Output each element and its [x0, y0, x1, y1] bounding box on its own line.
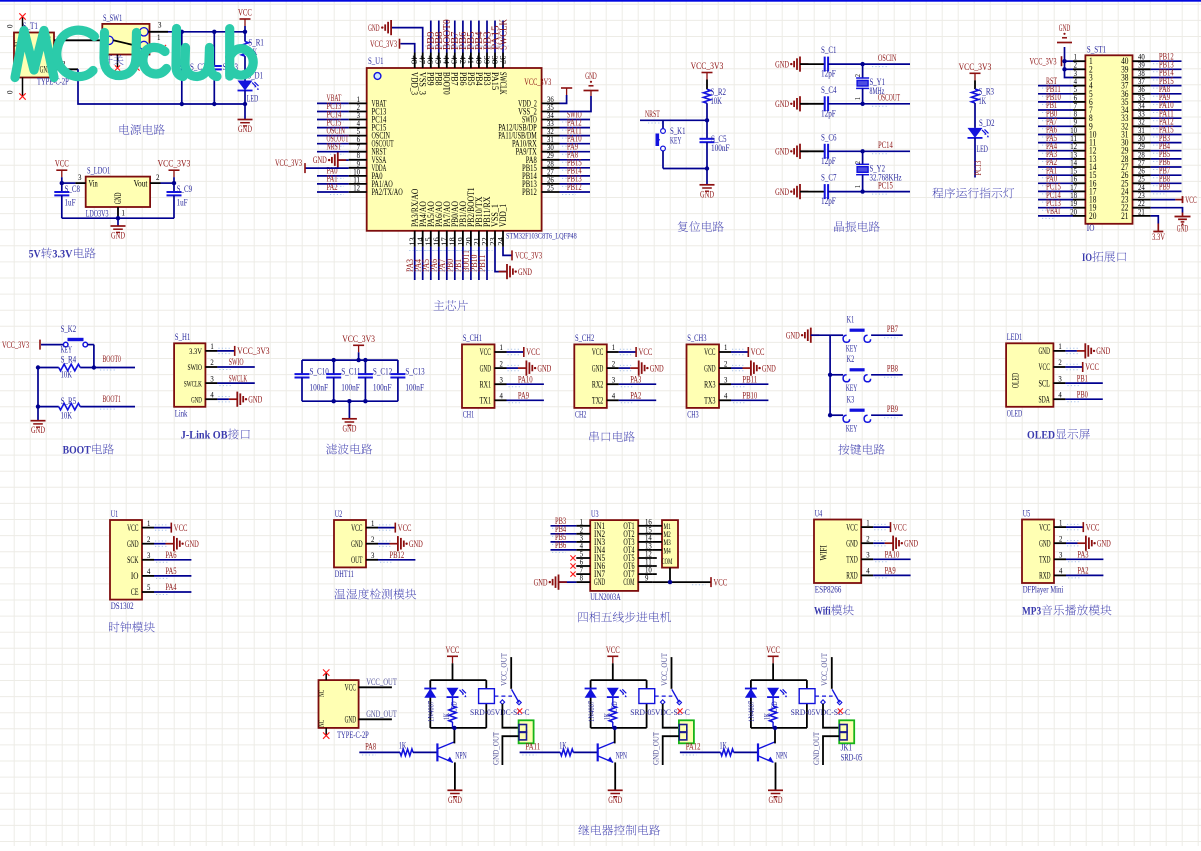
svg-text:0: 0 [5, 25, 15, 29]
pin 24 (VDD_1) [502, 231, 504, 247]
unused pins of S_SW1 [117, 55, 119, 68]
wire net SWIO [560, 119, 591, 121]
svg-text:SCL: SCL [1039, 379, 1051, 389]
svg-text:1: 1 [853, 185, 862, 188]
net PB11 (bottom stub) [486, 247, 488, 280]
wire OT6 stub [652, 565, 657, 567]
svg-text:VCC: VCC [639, 348, 653, 358]
power VCC [731, 351, 748, 353]
net PA7 (bottom stub) [446, 247, 448, 280]
svg-text:2: 2 [210, 358, 213, 367]
resistor S_R1 1K [244, 32, 246, 42]
net PA4 (bottom stub) [422, 247, 424, 280]
wire GND_OUT [823, 736, 839, 765]
svg-text:100nF: 100nF [405, 383, 424, 393]
wire net PB15 [1151, 85, 1182, 87]
wire net VBAT [1038, 215, 1073, 217]
net PB7 (top stub) [454, 21, 456, 53]
pin 27 (PB14) [542, 175, 560, 177]
pin 25 (PB12) [542, 191, 560, 193]
power port VCC [607, 655, 618, 657]
pin 3 (IN3) [576, 541, 590, 543]
capacitor S_C10 100nF [301, 360, 303, 374]
svg-text:VDD_1: VDD_1 [498, 204, 509, 227]
emitter wire to ground [454, 762, 456, 790]
svg-text:OLED: OLED [1027, 428, 1055, 442]
svg-text:CH2: CH2 [575, 410, 587, 420]
svg-text:2: 2 [1058, 358, 1061, 367]
pin 8 [1073, 117, 1085, 119]
collector wire [774, 728, 776, 744]
title 滤波电路 [326, 444, 337, 455]
capacitor S_C11 100nF [333, 360, 335, 374]
svg-text:2: 2 [724, 359, 727, 368]
pin 13 [1073, 158, 1085, 160]
svg-text:GND: GND [1096, 347, 1110, 357]
title 四相五线步进电机 [578, 612, 588, 622]
capacitor S_C13 100nF [397, 360, 399, 374]
wire net PC15 [828, 191, 910, 193]
pin 19 (PB1/AO) [462, 231, 464, 247]
svg-text:VCC: VCC [526, 348, 540, 358]
svg-text:1: 1 [157, 32, 161, 42]
svg-text:VCC_3V3: VCC_3V3 [370, 40, 397, 50]
svg-text:GND: GND [762, 364, 776, 374]
pin 1 (VCC) of S_T1 [54, 39, 102, 41]
svg-text:NC: NC [316, 720, 326, 727]
svg-text:K2: K2 [847, 355, 855, 365]
svg-text:VCC: VCC [846, 523, 857, 533]
svg-text:100nF: 100nF [711, 144, 730, 154]
wire net PC13 [317, 111, 349, 113]
svg-text:CH1: CH1 [463, 410, 475, 420]
wire net PA7 [1038, 125, 1073, 127]
svg-text:VCC_3V3: VCC_3V3 [2, 341, 29, 351]
svg-text:VCC: VCC [351, 524, 362, 534]
pin 6 (IN6) [576, 565, 590, 567]
pin 20 [1073, 215, 1085, 217]
pin 30 [1133, 142, 1151, 144]
svg-text:1K: 1K [720, 740, 728, 750]
pin 35 [1133, 101, 1151, 103]
wire net PB1 [1065, 382, 1102, 384]
svg-text:GND: GND [368, 24, 380, 34]
svg-text:J-Link OB: J-Link OB [181, 428, 228, 442]
svg-text:SWCLK: SWCLK [497, 72, 508, 95]
module U5 (DFPlayer Mini) [1022, 520, 1054, 584]
transistor NPN [597, 743, 599, 761]
svg-text:1K: 1K [399, 740, 407, 750]
net SWCLK (top stub) [502, 21, 504, 53]
svg-text:3.3V: 3.3V [52, 247, 72, 261]
svg-text:KEY: KEY [846, 345, 858, 355]
svg-text:VCC: VCC [1085, 363, 1099, 373]
connector TYPE-C-2P (power out) [319, 680, 359, 728]
wire net PA8 [1151, 93, 1182, 95]
svg-text:PA4: PA4 [165, 582, 176, 592]
svg-text:8MHz: 8MHz [870, 87, 885, 97]
wire net PB0 [1038, 117, 1073, 119]
svg-text:VCC_3V3: VCC_3V3 [275, 159, 302, 169]
pin 39 [1133, 68, 1151, 70]
svg-text:PB12: PB12 [522, 187, 537, 197]
svg-text:GND: GND [409, 540, 423, 550]
switch blade [672, 689, 680, 702]
wire OT4 to M4 [652, 549, 662, 551]
pin 39 (PB3) [486, 53, 488, 69]
pin 30 (PA9/TX) [542, 151, 560, 153]
connector (relay output) [839, 720, 854, 743]
svg-text:S_C7: S_C7 [821, 174, 837, 184]
svg-text:SWCLK: SWCLK [229, 373, 248, 383]
svg-text:VCC: VCC [1185, 196, 1196, 206]
svg-text:GND: GND [114, 192, 124, 204]
svg-text:VCC_3V3: VCC_3V3 [342, 335, 375, 345]
svg-text:M4: M4 [664, 545, 672, 555]
capacitor S_C5 100nF [706, 120, 708, 139]
pin 19 [1073, 207, 1085, 209]
net BOOT0 [80, 367, 135, 369]
svg-text:1: 1 [866, 518, 869, 527]
pin 16 (PA6/AO) [438, 231, 440, 247]
wire net PA6 [1038, 134, 1073, 136]
svg-text:0: 0 [5, 91, 15, 95]
pin 13 (PA3/RX/AO) [414, 231, 416, 247]
pin 7 (IN7) [576, 573, 590, 575]
capacitor S_C9 1uF [173, 183, 175, 192]
svg-text:GND_OUT: GND_OUT [651, 731, 661, 765]
svg-text:1N4007: 1N4007 [426, 700, 436, 722]
capacitor S_C4 12pF [800, 103, 825, 105]
svg-text:GND: GND [775, 188, 789, 198]
svg-text:S_C6: S_C6 [821, 133, 837, 143]
coil dashed link [815, 695, 833, 697]
svg-text:VCC: VCC [714, 578, 728, 588]
coil dashed link [655, 695, 673, 697]
ground [811, 334, 819, 336]
svg-text:PB1: PB1 [1077, 373, 1088, 383]
svg-text:1: 1 [371, 519, 374, 528]
wire COM to VCC [652, 581, 711, 583]
svg-text:1uF: 1uF [177, 199, 188, 209]
wire net PB11 [731, 383, 768, 385]
ground [31, 420, 46, 422]
svg-text:2: 2 [1059, 534, 1062, 543]
svg-text:12: 12 [353, 184, 360, 193]
resistor 1K (base) [721, 749, 734, 756]
svg-text:S_SW1: S_SW1 [103, 14, 123, 24]
pin 29 (PA8) [542, 159, 560, 161]
power VCC at pin23 [1151, 199, 1176, 201]
power port VCC [447, 655, 458, 657]
svg-text:21: 21 [1121, 211, 1128, 221]
power VCC_3V3 at VDD_3 pin48 [401, 44, 415, 53]
svg-text:PA2: PA2 [327, 182, 338, 192]
power VCC [873, 526, 890, 528]
contact common (VCC_OUT) [671, 657, 673, 689]
svg-text:VCC: VCC [1086, 523, 1100, 533]
svg-text:LED1: LED1 [1007, 333, 1023, 343]
ground [244, 104, 246, 120]
pin 1 of S_SW1 [148, 45, 162, 47]
pin 32 (PA11/USB/DM) [542, 135, 560, 137]
svg-text:GND: GND [904, 539, 918, 549]
svg-text:S_C13: S_C13 [405, 367, 425, 377]
pin 9 [1073, 125, 1085, 127]
svg-text:3: 3 [866, 551, 869, 560]
wire net PB15 [560, 167, 591, 169]
svg-text:SWCLK: SWCLK [184, 378, 202, 388]
svg-text:IO: IO [131, 572, 139, 582]
pin 2 [1073, 68, 1085, 70]
svg-text:2: 2 [500, 359, 503, 368]
svg-text:VCC: VCC [127, 524, 138, 534]
svg-text:SWIO: SWIO [229, 357, 244, 367]
svg-text:PA10: PA10 [518, 374, 533, 384]
connector S_T1 TYPE-C-2P [14, 33, 54, 78]
title 复位电路 [678, 221, 688, 232]
wire net PB12 [378, 559, 415, 561]
pin 25 [1133, 182, 1151, 184]
svg-text:GND: GND [238, 125, 252, 135]
wire net PB11 [1038, 93, 1073, 95]
power VCC [1066, 526, 1083, 528]
wire net PB5 [1151, 158, 1182, 160]
svg-text:KEY: KEY [846, 384, 858, 394]
no-ERC marks on S_T1 [22, 17, 24, 33]
svg-text:KEY: KEY [61, 346, 73, 356]
svg-text:3: 3 [371, 551, 374, 560]
pin 14 [1073, 166, 1085, 168]
pin 20 (PB2/BOOT1) [470, 231, 472, 247]
power VCC_3V3 [217, 350, 234, 352]
svg-text:TXD: TXD [846, 556, 858, 566]
net PA5 (bottom stub) [430, 247, 432, 280]
wire net PA9 [873, 574, 910, 576]
svg-text:K3: K3 [847, 395, 855, 405]
title 按键电路 [838, 444, 849, 455]
wire net PB12 [1151, 60, 1182, 62]
frame wires [430, 679, 486, 681]
svg-text:OLED: OLED [1012, 373, 1022, 388]
pin 6 [1073, 101, 1085, 103]
wire net PA1 [317, 183, 349, 185]
wire net OSCOUT [317, 143, 349, 145]
svg-text:S_R4: S_R4 [61, 355, 77, 365]
pin 23 (VSS_1) [494, 231, 496, 247]
wire net PB1 [1038, 109, 1073, 111]
pin 10 (OT7) [638, 573, 652, 575]
wire net PC13 [1038, 207, 1073, 209]
ground at VSS_1 pin23 [495, 247, 507, 272]
svg-text:32.768KHz: 32.768KHz [870, 174, 902, 184]
svg-text:3: 3 [210, 374, 213, 383]
pin 47 (VSS_3) [422, 53, 424, 69]
ground [1065, 350, 1077, 352]
svg-text:3: 3 [158, 20, 162, 30]
svg-text:IO: IO [1082, 250, 1092, 264]
crystal S_Y2 32.768KHz [862, 151, 864, 164]
pin 21 [1133, 215, 1151, 217]
wire net PB12 [560, 191, 591, 193]
svg-text:U3: U3 [591, 510, 599, 520]
module LED1 (OLED) [1006, 343, 1053, 407]
svg-text:1K: 1K [762, 712, 772, 720]
svg-text:1: 1 [122, 208, 126, 218]
pin 6 (OSCOUT) [349, 143, 367, 145]
svg-text:GND: GND [1177, 225, 1189, 235]
ground [117, 218, 119, 226]
svg-text:2: 2 [866, 534, 869, 543]
LED [767, 688, 779, 697]
contact common (VCC_OUT) [510, 657, 512, 689]
svg-text:VCC_OUT: VCC_OUT [819, 652, 829, 686]
svg-text:RXD: RXD [846, 572, 858, 582]
svg-text:VCC_3V3: VCC_3V3 [1030, 58, 1057, 68]
svg-text:VCC_OUT: VCC_OUT [499, 652, 509, 686]
pin 37 [1133, 85, 1151, 87]
title 主芯片 [434, 300, 445, 310]
svg-text:S_K2: S_K2 [61, 325, 77, 335]
wire net PC14 [828, 150, 910, 152]
svg-text:WIFI: WIFI [820, 545, 830, 560]
svg-text:S_ST1: S_ST1 [1087, 45, 1107, 55]
svg-text:1: 1 [612, 343, 615, 352]
svg-text:GND: GND [786, 331, 800, 341]
svg-text:GND: GND [1039, 347, 1051, 357]
svg-text:3.3V: 3.3V [189, 346, 202, 356]
svg-text:2: 2 [612, 359, 615, 368]
net PB4 (top stub) [478, 21, 480, 53]
svg-text:12pF: 12pF [821, 157, 836, 167]
svg-text:GND: GND [650, 364, 664, 374]
wire net OSCIN [828, 63, 910, 65]
title 晶振电路 [834, 221, 844, 232]
capacitor S_C1 12pF [800, 63, 825, 65]
svg-text:VCC_3V3: VCC_3V3 [515, 252, 542, 262]
title 温湿度检测模块 [334, 589, 345, 600]
wire net PB8 [871, 374, 903, 376]
ground [217, 398, 229, 400]
svg-text:DFPlayer Mini: DFPlayer Mini [1023, 586, 1064, 596]
svg-text:20: 20 [1070, 207, 1077, 216]
svg-text:3: 3 [1058, 374, 1061, 383]
svg-text:PC13: PC13 [973, 160, 983, 175]
svg-text:PA2: PA2 [1077, 566, 1088, 576]
svg-text:12pF: 12pF [821, 197, 836, 207]
svg-text:PA11: PA11 [525, 742, 540, 752]
svg-text:GND: GND [1097, 539, 1111, 549]
net PB10 (bottom stub) [478, 247, 480, 280]
ground [800, 63, 808, 65]
svg-text:S_C12: S_C12 [373, 367, 393, 377]
wire net PB10 [1038, 101, 1073, 103]
svg-text:PB9: PB9 [887, 404, 898, 414]
wire net PB13 [560, 183, 591, 185]
svg-text:Vin: Vin [89, 180, 98, 190]
wire net PA3 [1066, 558, 1103, 560]
svg-text:VCC: VCC [238, 9, 252, 19]
wire net PA3 [619, 383, 656, 385]
title 继电器控制电路 [578, 825, 589, 836]
svg-text:TYPE-C-2P: TYPE-C-2P [337, 731, 369, 741]
svg-text:GND: GND [518, 268, 532, 278]
frame wires [591, 679, 647, 681]
svg-text:GND: GND [1039, 539, 1051, 549]
svg-text:KEY: KEY [670, 136, 682, 146]
svg-text:OUT: OUT [351, 556, 363, 566]
resistor S_R2 10K [703, 89, 710, 103]
svg-text:Vout: Vout [134, 180, 148, 190]
svg-text:5V: 5V [29, 247, 41, 261]
svg-text:VCC_3V3: VCC_3V3 [691, 62, 724, 72]
pin 4 [1073, 85, 1085, 87]
wire net PA2 [317, 191, 349, 193]
svg-text:PA2: PA2 [630, 391, 641, 401]
svg-text:TX3: TX3 [704, 397, 716, 407]
svg-text:S_C1: S_C1 [821, 46, 837, 56]
svg-text:GND: GND [127, 540, 139, 550]
transistor NPN [436, 743, 438, 761]
wire net PA2 [619, 399, 656, 401]
switch blade [832, 689, 840, 702]
svg-text:GND: GND [191, 394, 202, 404]
svg-text:GND: GND [769, 796, 783, 806]
svg-text:S_CH3: S_CH3 [687, 334, 707, 344]
emitter wire to ground [614, 762, 616, 790]
svg-text:SWIO: SWIO [188, 362, 202, 372]
wire net PC14 [317, 119, 349, 121]
wire net PA11 [560, 135, 591, 137]
ground [800, 103, 808, 105]
wire net PB14 [1151, 77, 1182, 79]
svg-text:NPN: NPN [455, 751, 467, 761]
svg-text:VCC_3V3: VCC_3V3 [959, 63, 992, 73]
svg-text:VCC: VCC [592, 348, 603, 358]
pin 9 (VDDA) [349, 167, 367, 169]
pin 5 (OSCIN) [349, 135, 367, 137]
svg-text:VCC: VCC [345, 683, 356, 693]
svg-text:GND: GND [608, 796, 622, 806]
wire net PA10 [873, 558, 910, 560]
pin 37 (SWCLK) [502, 53, 504, 69]
wire net PC14 [1038, 199, 1073, 201]
pin 7 [1073, 109, 1085, 111]
pin 10 [1073, 134, 1085, 136]
net 3.3V at pin21 [1151, 216, 1159, 224]
pin 1 GND of LDO [117, 207, 119, 218]
wire net PA5 [154, 575, 191, 577]
wire net PB4 [551, 533, 577, 535]
svg-text:S_CH1: S_CH1 [463, 334, 483, 344]
MCUclub watermark logo [15, 29, 253, 78]
svg-text:U5: U5 [1023, 509, 1031, 519]
svg-text:12pF: 12pF [821, 70, 836, 80]
no-connect pin 7 [570, 572, 575, 577]
svg-text:3: 3 [78, 172, 82, 182]
wire net PB13 [1151, 68, 1182, 70]
regulator S_LDO1 LDO3V3 [86, 177, 150, 207]
wire T1 pin2 down to bottom rail [78, 69, 245, 104]
wire net PA15 [1151, 134, 1182, 136]
svg-text:1: 1 [1059, 518, 1062, 527]
title 串口电路 [589, 431, 598, 442]
wire net PA4 [154, 591, 191, 593]
net BOOT1 [80, 406, 135, 408]
capacitor S_C7 12pF [800, 191, 825, 193]
crystal S_Y1 8MHz [862, 64, 864, 78]
svg-text:PB11: PB11 [477, 254, 487, 272]
